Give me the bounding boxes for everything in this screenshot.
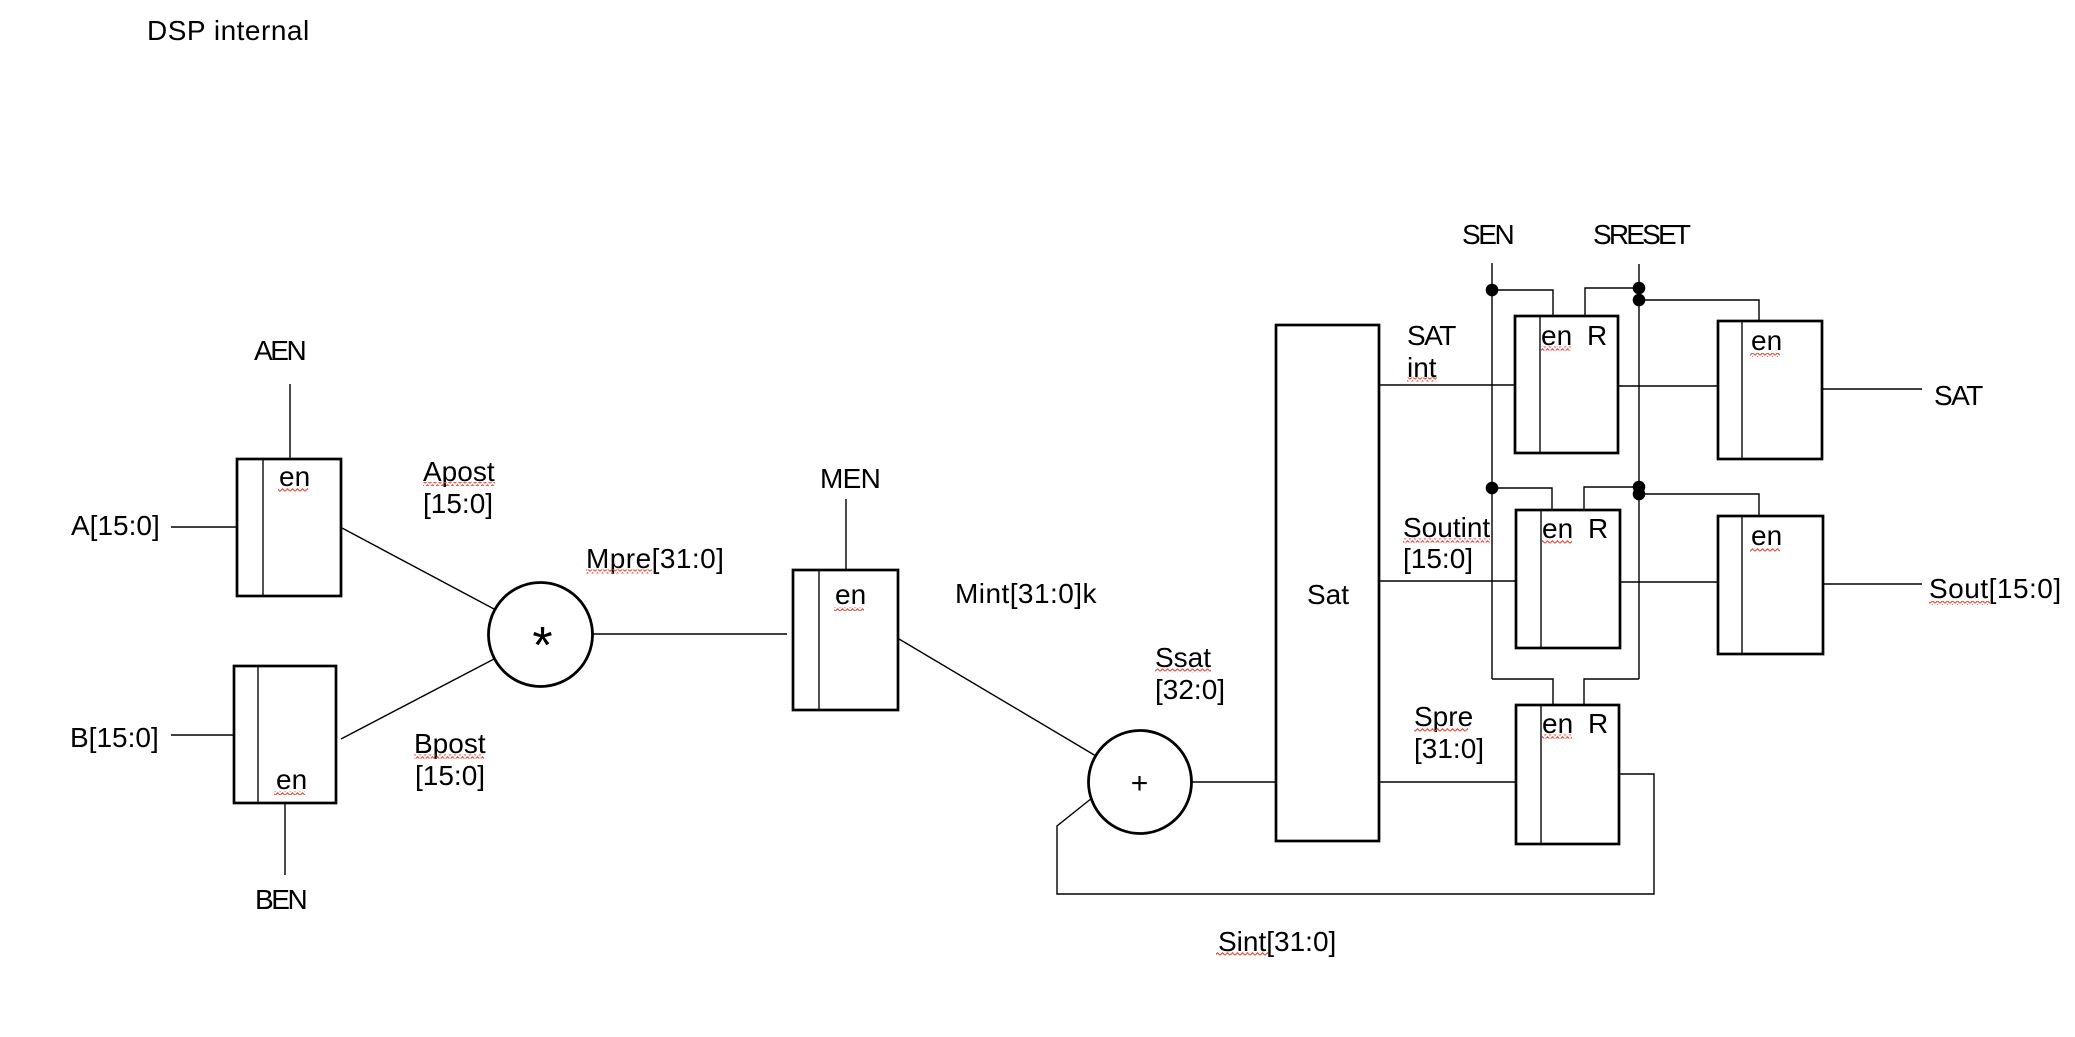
squiggle int: [1407, 378, 1437, 382]
svg-text:AEN: AEN: [254, 335, 305, 366]
wire SEN vertical: [1491, 263, 1493, 679]
svg-text:en: en: [1751, 520, 1782, 551]
wire Mint (M to adder): [899, 639, 1096, 756]
svg-text:BEN: BEN: [255, 884, 306, 915]
svg-text:Bpost: Bpost: [414, 728, 486, 759]
wire Sout output: [1823, 583, 1922, 585]
svg-text:R: R: [1588, 708, 1608, 739]
saturation block Sat: [1276, 325, 1379, 841]
svg-text:DSP internal: DSP internal: [147, 15, 310, 46]
wire Bpost (B to multiplier): [341, 659, 494, 739]
svg-text:en: en: [1751, 325, 1782, 356]
wire SATint register output: [1618, 385, 1718, 387]
svg-text:Spre: Spre: [1414, 701, 1473, 732]
register Spre: [1516, 705, 1619, 844]
junction SRESET middle a: [1633, 481, 1646, 494]
wire Soutint register output: [1620, 581, 1718, 583]
squiggle en Soutreg: [1750, 548, 1780, 552]
svg-text:A[15:0]: A[15:0]: [71, 510, 160, 541]
svg-text:+: +: [1131, 767, 1149, 800]
junction SEN top: [1486, 284, 1499, 297]
wire Mpre (multiplier to M): [593, 633, 787, 635]
svg-text:Ssat: Ssat: [1155, 642, 1211, 673]
multiplier: [489, 583, 593, 687]
junction SRESET top a: [1633, 282, 1646, 295]
squiggle en R3: [1542, 735, 1572, 739]
svg-text:*: *: [532, 617, 552, 675]
svg-text:SEN: SEN: [1462, 219, 1513, 250]
wire Apost (A to multiplier): [342, 528, 494, 609]
svg-text:[32:0]: [32:0]: [1155, 674, 1225, 705]
register SATint: [1515, 316, 1618, 453]
svg-text:Sout[15:0]: Sout[15:0]: [1929, 573, 2062, 604]
squiggle Spre: [1414, 728, 1468, 732]
svg-text:Soutint: Soutint: [1403, 512, 1490, 543]
wire B input: [171, 734, 234, 736]
wire Sint feedback: [1057, 774, 1654, 894]
svg-text:SAT: SAT: [1407, 320, 1456, 351]
wire Spre (Sat to register): [1380, 781, 1516, 783]
wire SATint (Sat to register): [1380, 384, 1515, 386]
svg-text:[15:0]: [15:0]: [415, 760, 485, 791]
squiggle Ssat: [1155, 669, 1211, 673]
wire SRESET branch to Spre R: [1584, 679, 1639, 705]
svg-text:en: en: [835, 579, 866, 610]
wire A input: [171, 526, 237, 528]
squiggle en A: [278, 488, 308, 492]
wire SRESET branch to SAT out en: [1639, 300, 1759, 321]
wire SRESET branch to Soutint R: [1584, 487, 1639, 510]
adder: [1089, 731, 1192, 834]
svg-text:SRESET: SRESET: [1593, 219, 1691, 250]
squiggle Apost: [423, 482, 495, 486]
svg-text:B[15:0]: B[15:0]: [70, 722, 159, 753]
wire Ssat (adder to Sat): [1191, 781, 1276, 783]
register SAT out: [1718, 321, 1822, 459]
svg-text:Sat: Sat: [1307, 579, 1349, 610]
svg-text:en: en: [279, 461, 310, 492]
squiggle Mpre: [586, 570, 652, 574]
squiggle Sint: [1216, 952, 1268, 956]
wire SEN branch to SATint en: [1492, 290, 1553, 316]
squiggle Bpost: [414, 755, 484, 759]
register B: [234, 666, 336, 803]
junction SEN middle: [1486, 482, 1499, 495]
wire SEN branch to Soutint en: [1492, 488, 1552, 510]
wire SAT output: [1822, 388, 1922, 390]
wire SEN branch to Spre en: [1492, 679, 1553, 705]
squiggle en R2: [1542, 540, 1572, 544]
squiggle en R1: [1541, 347, 1571, 351]
svg-text:[15:0]: [15:0]: [1403, 543, 1473, 574]
squiggle en M: [834, 607, 864, 611]
svg-text:en: en: [1541, 320, 1572, 351]
svg-text:Mint[31:0]k: Mint[31:0]k: [955, 578, 1097, 609]
squiggle Sout: [1929, 601, 1990, 605]
svg-text:[15:0]: [15:0]: [423, 488, 493, 519]
wire SRESET vertical: [1638, 264, 1640, 679]
squiggle Soutint: [1403, 539, 1490, 543]
wire BEN lead: [284, 803, 286, 875]
svg-text:en: en: [1542, 513, 1573, 544]
wire AEN lead: [289, 384, 291, 459]
wire SRESET branch to SATint R: [1585, 288, 1639, 316]
squiggle en SATreg: [1750, 353, 1780, 357]
svg-text:[31:0]: [31:0]: [1414, 733, 1484, 764]
wire Soutint (Sat to register): [1380, 580, 1516, 582]
wire SRESET branch to Sout en: [1639, 494, 1759, 516]
svg-text:en: en: [276, 764, 307, 795]
svg-text:SAT: SAT: [1934, 380, 1983, 411]
register A: [237, 459, 341, 596]
svg-text:R: R: [1587, 320, 1607, 351]
register Sout: [1718, 516, 1823, 654]
svg-text:Mpre[31:0]: Mpre[31:0]: [586, 543, 724, 574]
junction SRESET top b: [1633, 294, 1646, 307]
wire MEN lead: [845, 499, 847, 570]
squiggle en B: [274, 791, 305, 795]
svg-text:R: R: [1588, 513, 1608, 544]
junction SRESET middle b: [1633, 488, 1646, 501]
svg-text:en: en: [1542, 708, 1573, 739]
register M: [793, 570, 898, 710]
svg-text:MEN: MEN: [820, 463, 880, 494]
register Soutint: [1516, 510, 1620, 648]
